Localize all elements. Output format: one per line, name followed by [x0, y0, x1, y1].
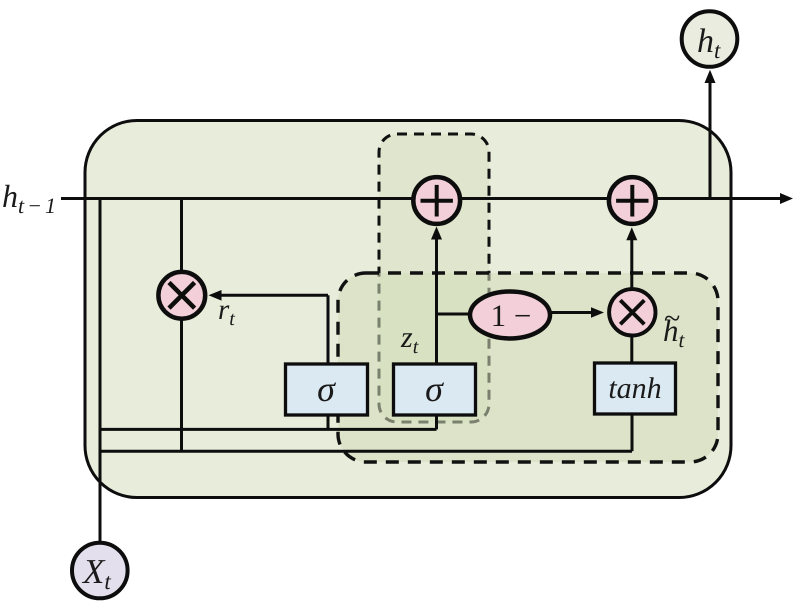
svg-text:ht−1: ht−1: [2, 178, 59, 218]
wire multiply2 up to add2 (arrow): [626, 227, 637, 288]
op one-minus ellipse: [470, 292, 550, 339]
gate sigma1 box: [286, 364, 368, 415]
wire line B (candidate input bus): [100, 450, 632, 453]
svg-text:1 −: 1 −: [491, 298, 532, 333]
wire h(t-1) main horizontal with arrow: [61, 193, 793, 204]
node X_t input circle: [72, 543, 128, 599]
wire multiply2 down to tanh: [630, 336, 633, 363]
svg-text:σ: σ: [317, 369, 336, 409]
wire sigma1 output to multiply (arrow): [209, 290, 329, 364]
dashed region: update-gate path (tall): [379, 134, 489, 422]
label h-tilde_t: [663, 302, 686, 352]
wire z-gate up to add1 (arrow): [431, 227, 442, 365]
dashed region: candidate path (wide): [338, 273, 718, 462]
gate tanh box: [595, 363, 676, 414]
svg-text:σ: σ: [425, 369, 444, 409]
node h_t output circle: [682, 11, 738, 67]
wire h_t output up (arrow): [705, 70, 716, 199]
GRU cell body: [85, 121, 731, 498]
wire line A (gate input bus): [100, 428, 437, 431]
op add2 (circle-plus): [609, 177, 656, 224]
gate sigma2 box: [394, 364, 476, 415]
op multiply2 (circle-cross): [609, 289, 655, 335]
svg-text:~: ~: [664, 302, 680, 335]
wire z to one-minus: [437, 313, 472, 316]
svg-text:tanh: tanh: [608, 372, 661, 405]
wire sigma2 bottom stub: [435, 415, 438, 429]
wire sigma1 bottom stub: [327, 415, 330, 429]
wire X_t vertical: [99, 199, 102, 544]
op multiply r (circle-cross): [158, 272, 205, 319]
wire one-minus to multiply2 (arrow): [551, 307, 604, 318]
op add1 (circle-plus): [413, 177, 460, 224]
wire r-gate vertical: [180, 199, 183, 452]
wire tanh bottom stub: [631, 414, 634, 451]
